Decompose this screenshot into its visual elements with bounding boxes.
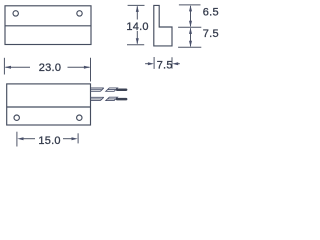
wire lead 1 segment A — [91, 88, 104, 91]
svg-text:7.5: 7.5 — [157, 59, 173, 71]
dim 23.0 extension line left — [3, 58, 5, 75]
dim 7.5 right arrowhead up — [189, 28, 192, 34]
dim 14.0 extension line bottom — [127, 44, 144, 46]
bottom view hole right — [77, 115, 82, 120]
top view divider line — [5, 25, 91, 27]
dim 6.5 dimension line — [190, 6, 192, 27]
top view hole right — [77, 11, 82, 16]
svg-text:15.0: 15.0 — [38, 135, 60, 147]
dim 14.0 arrowhead up — [136, 6, 139, 12]
dim 7.5 bottom leader left — [145, 63, 149, 65]
dim 15.0 dimension line — [22, 138, 35, 140]
svg-text:23.0: 23.0 — [39, 62, 61, 74]
bottom view hole left — [14, 115, 19, 120]
svg-text:14.0: 14.0 — [126, 21, 148, 33]
top view body — [5, 6, 91, 45]
bottom view divider line — [7, 106, 91, 108]
bottom view body — [7, 84, 91, 125]
dim 23.0 dimension line — [5, 66, 30, 68]
wire lead 2 bare tip — [116, 98, 128, 101]
dim 7.5 bottom tick right — [171, 57, 173, 68]
top view hole left — [13, 11, 18, 16]
wire lead 2 segment B — [106, 97, 118, 100]
dim 7.5 extension line bottom — [178, 46, 201, 48]
dim 6.5 extension line top — [179, 4, 201, 6]
dim 7.5 bottom arrowhead pointing left — [172, 62, 178, 65]
dim 15.0 tick right — [77, 133, 79, 143]
dim 6.5/7.5 extension line middle — [178, 26, 201, 28]
dim 7.5 bottom tick left — [153, 57, 155, 69]
dim 7.5 bottom arrowhead pointing right — [148, 62, 154, 65]
svg-text:6.5: 6.5 — [203, 7, 219, 19]
dim 7.5 bottom leader right — [177, 63, 180, 65]
dim 23.0 arrowhead left — [5, 66, 11, 69]
dim 23.0 arrowhead right — [84, 66, 90, 69]
dim 15.0 tick left — [16, 132, 18, 147]
dim 14.0 arrowhead down — [136, 38, 139, 44]
side view L-profile — [154, 5, 172, 46]
wire lead 1 bare tip — [116, 89, 128, 92]
dim 6.5 arrowhead up — [189, 5, 192, 11]
dim 7.5 right dimension line — [190, 28, 192, 46]
dim 6.5 arrowhead down — [189, 21, 192, 27]
wire lead 2 segment A — [91, 97, 104, 100]
svg-text:7.5: 7.5 — [203, 28, 219, 40]
dim 7.5 right arrowhead down — [189, 41, 192, 47]
dim 15.0 arrowhead right — [72, 137, 78, 140]
wire lead 1 segment B — [106, 88, 118, 91]
dim 15.0 arrowhead left — [17, 137, 23, 140]
dim 14.0 extension line top — [128, 4, 145, 6]
dim 14.0 dimension line — [136, 6, 138, 19]
dim 23.0 extension line right — [90, 58, 92, 82]
